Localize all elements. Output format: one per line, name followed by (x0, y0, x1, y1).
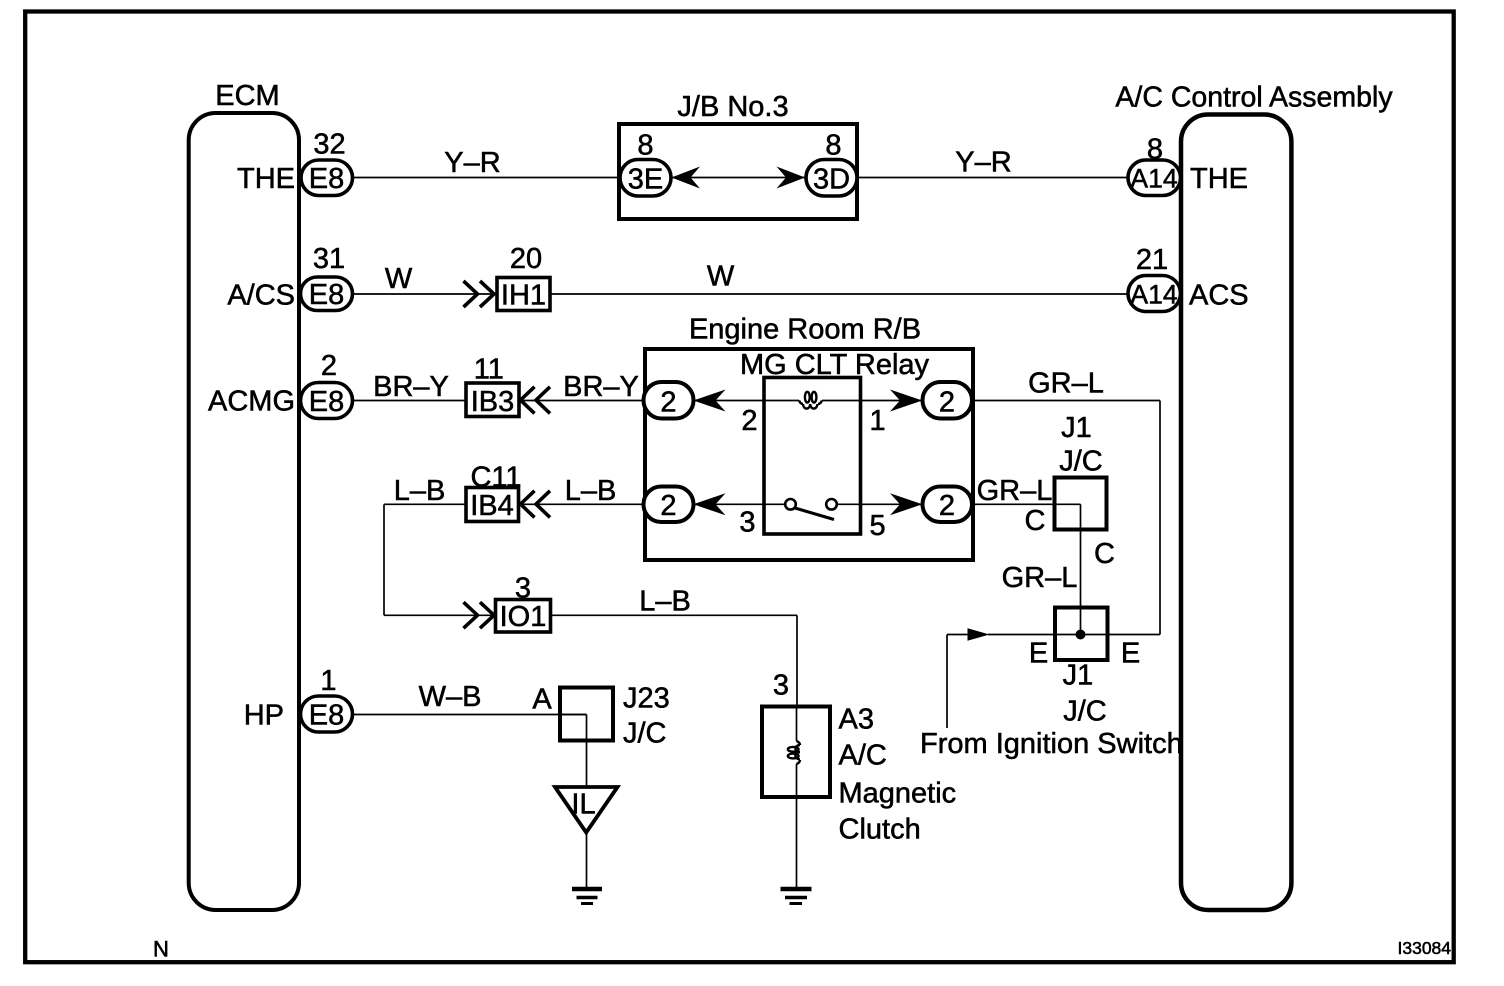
svg-text:31: 31 (313, 243, 345, 275)
svg-text:J/C: J/C (1063, 696, 1107, 728)
svg-text:IH1: IH1 (501, 280, 546, 312)
svg-text:J1: J1 (1063, 660, 1094, 692)
svg-text:2: 2 (939, 490, 955, 522)
svg-text:W–B: W–B (419, 681, 482, 713)
svg-text:THE: THE (237, 163, 295, 195)
svg-text:C11: C11 (470, 462, 521, 494)
svg-text:THE: THE (1190, 163, 1248, 195)
svg-text:8: 8 (825, 130, 841, 162)
svg-text:8: 8 (1147, 134, 1163, 166)
svg-text:A/CS: A/CS (227, 280, 295, 312)
svg-text:J/C: J/C (1059, 446, 1103, 478)
svg-text:3: 3 (515, 573, 531, 605)
svg-text:8: 8 (637, 130, 653, 162)
svg-text:A3: A3 (839, 704, 874, 736)
svg-text:BR–Y: BR–Y (373, 371, 449, 403)
svg-text:L–B: L–B (394, 475, 446, 507)
svg-text:3: 3 (739, 507, 755, 539)
svg-text:ACS: ACS (1189, 280, 1249, 312)
svg-text:ACMG: ACMG (208, 386, 295, 418)
svg-text:1: 1 (870, 405, 886, 437)
svg-text:IL: IL (571, 789, 595, 821)
svg-text:20: 20 (510, 243, 542, 275)
svg-text:A14: A14 (1130, 164, 1177, 194)
svg-text:Clutch: Clutch (839, 814, 921, 846)
svg-text:11: 11 (474, 354, 504, 386)
svg-text:J/C: J/C (623, 718, 667, 750)
svg-text:W: W (707, 261, 735, 293)
svg-text:GR–L: GR–L (977, 475, 1053, 507)
svg-text:3: 3 (773, 670, 789, 702)
svg-text:W: W (385, 263, 413, 295)
svg-text:C: C (1025, 505, 1046, 537)
svg-text:Y–R: Y–R (955, 147, 1011, 179)
svg-text:A/C Control Assembly: A/C Control Assembly (1115, 82, 1393, 114)
svg-text:E8: E8 (309, 700, 344, 732)
svg-text:2: 2 (741, 405, 757, 437)
svg-text:ECM: ECM (215, 80, 279, 112)
svg-text:J1: J1 (1061, 412, 1092, 444)
svg-text:21: 21 (1136, 244, 1168, 276)
svg-text:Y–R: Y–R (444, 147, 500, 179)
svg-text:2: 2 (321, 350, 337, 382)
svg-text:E: E (1121, 638, 1140, 670)
svg-text:Engine Room R/B: Engine Room R/B (689, 314, 921, 346)
svg-text:J/B No.3: J/B No.3 (677, 91, 788, 123)
svg-text:Magnetic: Magnetic (839, 778, 957, 810)
svg-text:A14: A14 (1130, 280, 1177, 310)
svg-text:J23: J23 (623, 683, 670, 715)
svg-text:From Ignition Switch: From Ignition Switch (920, 728, 1183, 760)
svg-text:3D: 3D (813, 164, 850, 196)
svg-text:5: 5 (870, 510, 886, 542)
svg-text:1: 1 (320, 665, 336, 697)
svg-text:E8: E8 (309, 279, 344, 311)
svg-text:3E: 3E (628, 164, 663, 196)
svg-text:A/C: A/C (839, 740, 887, 772)
svg-text:IB3: IB3 (471, 386, 515, 418)
svg-text:C: C (1094, 538, 1115, 570)
svg-text:GR–L: GR–L (1002, 562, 1078, 594)
svg-text:E8: E8 (309, 386, 344, 418)
svg-text:2: 2 (660, 490, 676, 522)
svg-text:E8: E8 (309, 163, 344, 195)
svg-text:GR–L: GR–L (1028, 368, 1104, 400)
svg-text:2: 2 (660, 387, 676, 419)
svg-text:32: 32 (313, 129, 345, 161)
svg-text:A: A (532, 684, 552, 716)
svg-text:2: 2 (939, 387, 955, 419)
svg-text:HP: HP (244, 700, 284, 732)
svg-text:L–B: L–B (639, 586, 691, 618)
svg-text:I33084: I33084 (1398, 938, 1452, 958)
svg-text:L–B: L–B (565, 475, 617, 507)
svg-text:IO1: IO1 (500, 601, 547, 633)
svg-text:BR–Y: BR–Y (563, 371, 639, 403)
svg-text:E: E (1029, 638, 1048, 670)
svg-text:IB4: IB4 (470, 490, 514, 522)
svg-text:MG CLT Relay: MG CLT Relay (740, 349, 930, 381)
svg-text:N: N (153, 937, 169, 962)
